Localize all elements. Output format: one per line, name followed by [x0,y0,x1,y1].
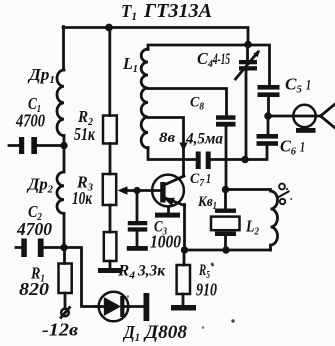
svg-text:4700: 4700 [16,219,52,239]
svg-text:Д808: Д808 [143,322,188,343]
chassis bar at diode cathode [144,293,150,321]
node: output junction [264,112,272,120]
ground under C3 [127,246,148,251]
wire: R4 to ground [109,261,112,268]
svg-text:1: 1 [300,140,305,156]
current direction arrow 4.5mA [179,143,187,152]
svg-text:ГТ313А: ГТ313А [143,0,212,22]
capacitor C1 [9,144,64,147]
terminal -12v [61,309,69,317]
scan speck [127,295,129,297]
node: emitter junction [181,246,188,253]
svg-text:910: 910 [196,280,217,300]
resistor R1 820 [59,264,72,294]
diode D1 [99,292,129,322]
wire: base lead with arrow to divider [125,189,162,192]
svg-text:4,5ма: 4,5ма [185,131,223,148]
svg-text:1: 1 [206,172,211,187]
output jack [268,115,321,118]
capacitor C8 [216,115,236,120]
transistor case ground [167,207,170,213]
svg-text:4-15: 4-15 [212,51,230,68]
capacitor C3 1000 [128,221,148,225]
node: C2 / left rail junction [60,244,67,251]
scan speck [202,326,205,329]
scan speck [231,319,234,322]
capacitor C6 [267,116,270,134]
wire: output rail right part [211,146,267,160]
node: C1 / left rail junction [60,142,67,149]
svg-text:51к: 51к [74,124,96,144]
wire: C2 node down to R1 [63,248,66,264]
wire: L1 top to right rail [148,45,270,85]
wire: crystal node to L2 top [226,190,271,192]
wire: collector up to L1 tap [148,118,184,177]
node: C4 top junction [244,41,252,49]
svg-text:820: 820 [19,279,49,299]
wire: C3 to ground [136,232,139,246]
wire: left rail down to Dr1 [62,27,65,71]
svg-text:4700: 4700 [15,111,45,131]
winding mark sigma [276,184,292,205]
wire: top junction down to R2 [108,28,111,116]
resistor R5 910 [183,250,186,265]
ground under R4 [98,268,121,273]
node: crystal top junction [222,186,229,193]
wire: emitter node to L2 bottom [185,249,271,252]
capacitor C7 [196,152,201,170]
wire: R2 to R3 [109,144,112,175]
crystal Kv1 [224,190,227,209]
svg-text:10к: 10к [72,188,93,208]
wire: emitter down to node [183,205,186,251]
wire: L1 bottom to output rail (left part) [148,148,196,160]
svg-text:-12в: -12в [42,320,78,340]
svg-text:1: 1 [306,78,311,94]
wire: top supply rail with corner down to C4 node [63,28,248,45]
wire: R1 to -12v terminal [64,293,67,309]
inductor Dr2 [57,172,64,213]
capacitor C2 [16,246,64,249]
wire: C1 node down to Dr2 [63,146,66,173]
inductor L1 [141,49,148,148]
resistor R3 10k [103,174,116,205]
wire: R3 to R4 [109,205,112,232]
wire: C2 node over to diode D1 [64,248,99,307]
capacitor C5 [258,85,280,90]
inductor L2 [271,191,278,250]
wire: Dr1 to C1 node [63,136,66,146]
svg-text:1000: 1000 [150,232,181,252]
wire: L1 tap to C8 [148,89,227,116]
node: junction top rail / R2 column [105,24,113,32]
inductor Dr1 [57,70,64,136]
wire: Dr2 to C2 node [63,213,66,247]
node: crystal bottom junction [222,246,229,253]
node: base / C3 junction [133,187,140,194]
node: C4 bottom junction [241,156,248,163]
trimmer capacitor C4 [246,45,249,61]
wire: C8 down across rail to crystal node [225,126,228,187]
svg-text:3,3к: 3,3к [137,263,166,280]
svg-text:8в: 8в [159,130,175,146]
transistor T1 GT313A [152,175,184,207]
resistor R2 51k [103,116,117,144]
resistor R4 3.3k [104,232,117,261]
wire: junction down to C3 [136,191,139,222]
ground under R5 [171,305,196,311]
